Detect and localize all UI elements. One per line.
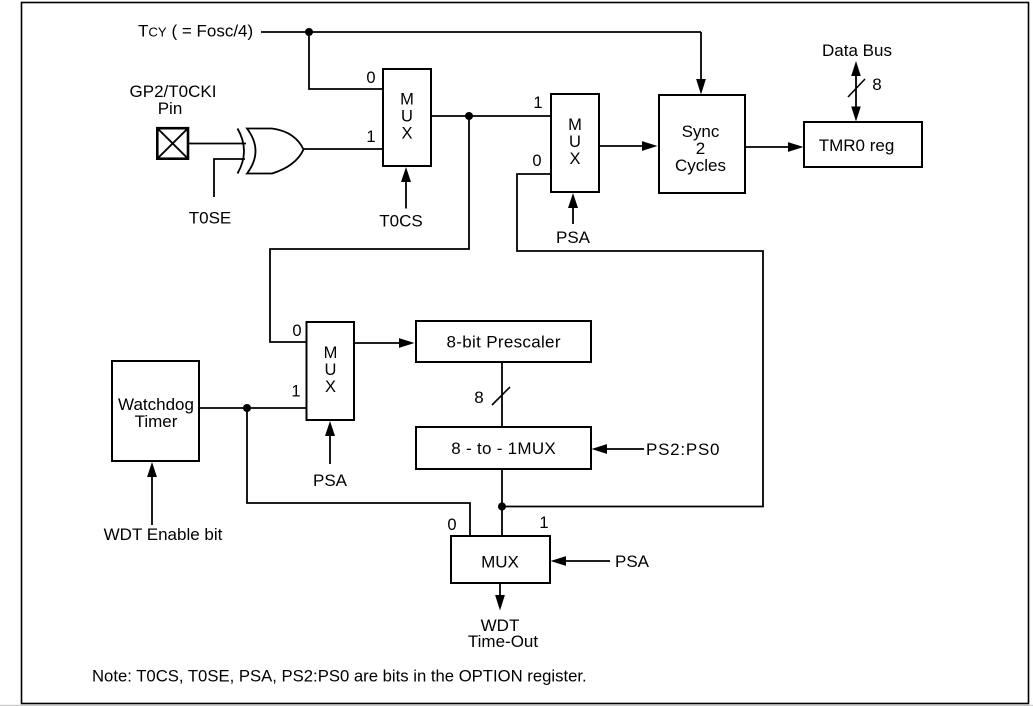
svg-text:8-bit Prescaler: 8-bit Prescaler	[447, 333, 561, 352]
svg-text:X: X	[401, 125, 412, 143]
wire 8-to-1MUX output down to MUX4	[501, 469, 503, 536]
bus width slash (prescaler bus)	[492, 387, 510, 405]
wire MUX1 output to MUX2 input 1	[431, 115, 551, 117]
svg-text:Pin: Pin	[158, 99, 183, 118]
bus width slash (Data Bus)	[848, 79, 865, 97]
block Watchdog Timer	[112, 361, 199, 461]
wire T0SE to XOR	[214, 159, 245, 197]
svg-text:X: X	[325, 378, 336, 396]
svg-text:Note: T0CS, T0SE, PSA, PS2:PS0: Note: T0CS, T0SE, PSA, PS2:PS0 are bits …	[92, 667, 587, 686]
label WDT Time-Out	[468, 616, 538, 651]
svg-text:PSA: PSA	[556, 228, 591, 247]
pin GP2/T0CKI label	[130, 82, 217, 118]
junction Watchdog output	[243, 404, 251, 412]
svg-text:X: X	[569, 150, 580, 168]
signal PSA arrow (MUX4)	[551, 556, 611, 566]
wire junction down to MUX3 input 0	[270, 116, 469, 342]
wire Prescaler to 8-to-1MUX	[501, 362, 503, 427]
svg-text:Cycles: Cycles	[675, 156, 726, 175]
xor gate	[238, 129, 304, 174]
wire MUX3 output arrow to Prescaler	[354, 338, 415, 348]
wire TCY down arrow into Sync top	[696, 32, 706, 95]
svg-text:0: 0	[532, 152, 541, 170]
svg-text:Time-Out: Time-Out	[468, 632, 538, 651]
pin GP2/T0CKI symbol	[157, 128, 188, 159]
svg-text:U: U	[325, 361, 337, 379]
wire junction down to MUX4 input 0	[247, 408, 470, 536]
svg-text:U: U	[569, 133, 581, 151]
svg-text:1: 1	[366, 128, 375, 146]
signal PS2:PS0 arrow	[592, 444, 645, 454]
wire MUX2 input 0 long path to bottom junction	[502, 174, 763, 507]
wire Sync output arrow to TMR0	[745, 142, 804, 152]
bottom edge shading	[0, 705, 1033, 706]
wire junction to MUX1 input 0	[309, 32, 383, 89]
wire TCY horizontal	[261, 31, 701, 33]
svg-text:PSA: PSA	[615, 552, 650, 571]
svg-text:PS2:PS0: PS2:PS0	[646, 440, 720, 459]
svg-text:0: 0	[292, 322, 301, 340]
svg-text:U: U	[401, 108, 413, 126]
block TMR0 reg	[804, 122, 922, 167]
svg-text:8: 8	[474, 388, 483, 407]
svg-text:0: 0	[366, 69, 375, 87]
svg-text:MUX: MUX	[481, 553, 519, 572]
junction MUX1 output	[465, 112, 473, 120]
wire XOR output to MUX1 input 1	[304, 148, 384, 150]
svg-text:8 - to - 1MUX: 8 - to - 1MUX	[451, 439, 556, 458]
svg-text:TCY ( = Fosc/4): TCY ( = Fosc/4)	[138, 22, 253, 41]
svg-text:Data Bus: Data Bus	[822, 41, 892, 60]
svg-text:WDT Enable bit: WDT Enable bit	[104, 525, 223, 544]
signal WDT Enable bit arrow	[147, 462, 157, 525]
block 8-to-1MUX	[416, 427, 591, 469]
svg-text:1: 1	[533, 94, 542, 112]
wire MUX2 output arrow to Sync	[599, 141, 658, 151]
signal T0CS arrow	[401, 167, 411, 209]
svg-text:M: M	[568, 116, 582, 134]
mux MUX4	[451, 536, 550, 583]
svg-text:T0SE: T0SE	[189, 209, 232, 228]
signal PSA arrow (MUX3)	[325, 421, 335, 464]
svg-text:TMR0 reg: TMR0 reg	[819, 136, 895, 155]
svg-text:PSA: PSA	[313, 471, 348, 490]
mux MUX1	[383, 69, 431, 166]
svg-text:Timer: Timer	[135, 412, 178, 431]
svg-text:M: M	[400, 91, 414, 109]
mux MUX2	[551, 94, 599, 192]
svg-text:M: M	[324, 344, 338, 362]
junction TCY node	[305, 28, 313, 36]
wire Watchdog output to MUX3 input 1	[199, 407, 307, 409]
svg-text:1: 1	[291, 383, 300, 401]
svg-text:0: 0	[447, 516, 456, 534]
block 8-bit Prescaler	[416, 321, 591, 362]
signal PSA arrow (MUX2)	[568, 193, 578, 224]
wire MUX4 output arrow WDT Time-Out	[495, 583, 505, 611]
junction prescaler output node	[498, 503, 506, 511]
wire Data Bus double arrow	[851, 61, 861, 122]
svg-text:8: 8	[872, 75, 881, 94]
svg-text:T0CS: T0CS	[379, 212, 422, 231]
wire pin to XOR	[188, 143, 246, 145]
block Sync 2 Cycles	[659, 95, 745, 193]
svg-text:1: 1	[539, 514, 548, 532]
mux MUX3	[307, 322, 355, 420]
